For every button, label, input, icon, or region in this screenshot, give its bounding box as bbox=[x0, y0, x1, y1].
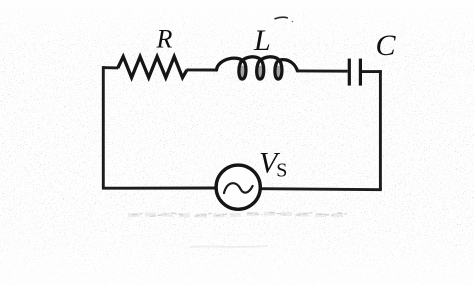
wire: between L and C bbox=[297, 69, 348, 72]
wire: between R and L bbox=[186, 68, 217, 71]
stray pencil dash near top bbox=[275, 17, 287, 18]
ac source sine tilde bbox=[224, 183, 253, 193]
inductor L coil bbox=[217, 57, 298, 79]
wire: bottom right segment bbox=[260, 189, 382, 190]
wire: right vertical bbox=[379, 70, 382, 190]
wire: top-left horizontal bbox=[102, 66, 118, 69]
wire: left vertical bbox=[102, 66, 105, 188]
wire: C to right corner bbox=[362, 70, 382, 73]
scan smudge band under bottom wire bbox=[128, 212, 346, 247]
capacitor C left plate bbox=[348, 59, 351, 86]
inductor L teardrop fills bbox=[239, 66, 246, 79]
wire: bottom left segment bbox=[102, 187, 216, 190]
resistor R bbox=[118, 57, 187, 78]
ac source VS circle bbox=[216, 165, 260, 209]
svg-text:R: R bbox=[156, 25, 173, 54]
stray dot bbox=[292, 21, 294, 23]
capacitor C right plate bbox=[359, 59, 362, 86]
svg-text:C: C bbox=[376, 29, 397, 62]
svg-text:S: S bbox=[276, 160, 287, 182]
svg-text:L: L bbox=[253, 24, 271, 57]
